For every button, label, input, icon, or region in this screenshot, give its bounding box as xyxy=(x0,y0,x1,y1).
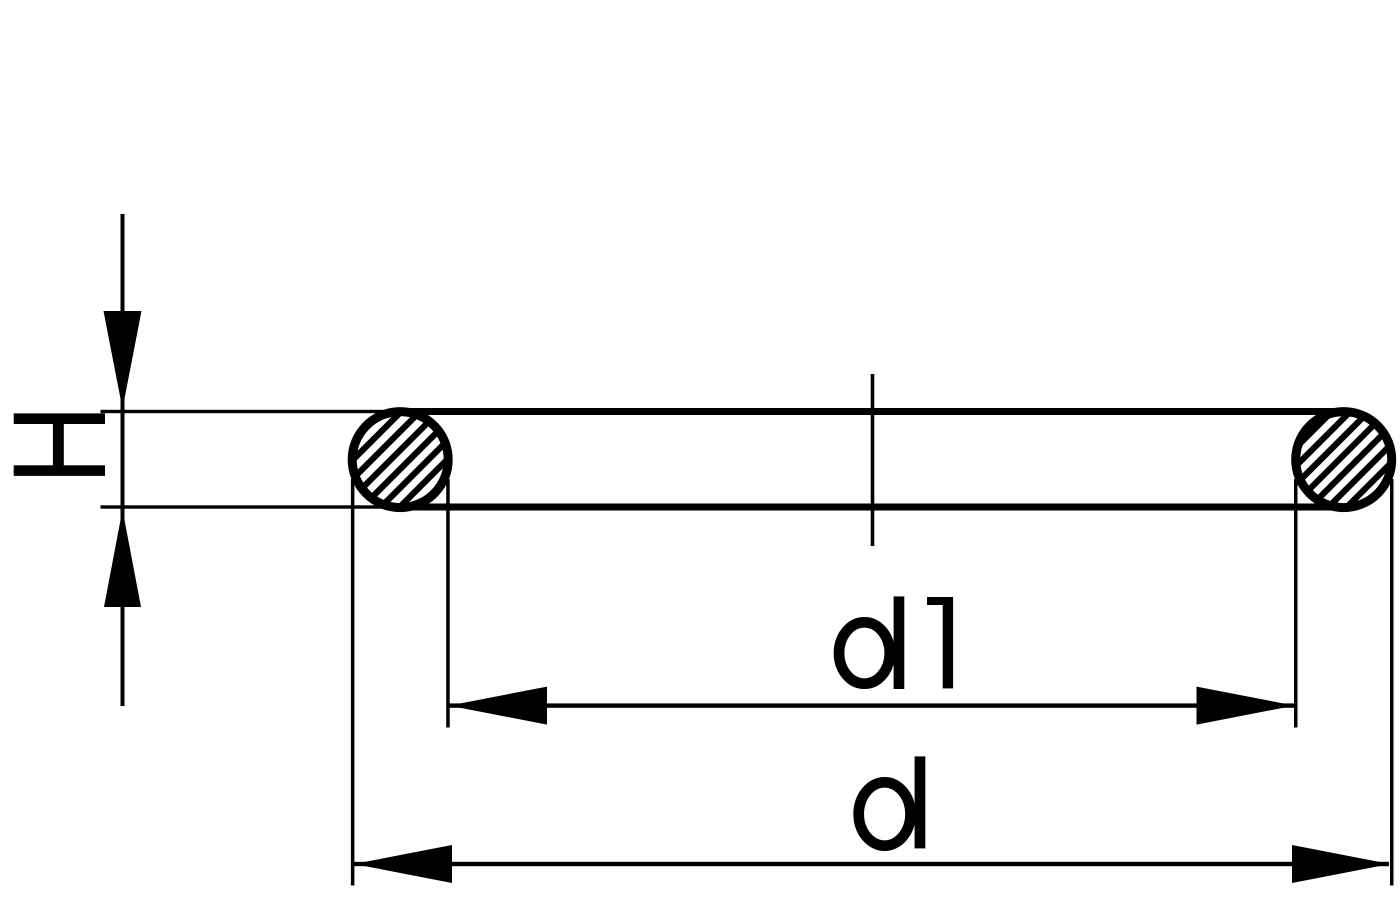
arrowhead H top (points down) xyxy=(104,311,142,409)
label d1: letter d stem xyxy=(894,596,905,689)
cross-section circle left (fill) xyxy=(348,407,453,512)
hatching right xyxy=(1209,385,1400,535)
label d1: letter d bowl xyxy=(839,622,890,683)
arrowhead d right xyxy=(1292,845,1390,883)
arrowhead d1 left xyxy=(449,687,547,725)
centerline vertical xyxy=(871,374,875,546)
label d: letter d bowl xyxy=(859,782,911,845)
label d: letter d stem xyxy=(915,756,926,848)
dimension line d1 xyxy=(449,703,1294,707)
extension line d1 left (vertical) xyxy=(446,479,450,728)
extension line bottom (thin, y=507) xyxy=(101,505,401,508)
label d1: digit 1 flag xyxy=(927,597,953,605)
arrowhead d left xyxy=(354,845,452,883)
extension line d1 right (vertical) xyxy=(1294,479,1298,728)
extension line d left (vertical) xyxy=(351,479,355,886)
arrowhead H bottom (points up) xyxy=(104,510,141,608)
hatching left xyxy=(259,385,541,535)
cross-section circle right (fill) xyxy=(1291,407,1396,512)
cross-section circle left (outline) xyxy=(352,412,448,508)
arrowhead d1 right xyxy=(1197,687,1295,725)
cross-section circle right (outline) xyxy=(1296,412,1392,508)
dimension line H (vertical) xyxy=(121,214,125,706)
label H (rotated) xyxy=(14,413,105,476)
dimension line d xyxy=(354,862,1389,866)
o-ring silhouette bottom line (thick) xyxy=(400,504,1344,511)
extension line d right (vertical) xyxy=(1390,479,1394,886)
extension line top (thin, y=411.5) xyxy=(101,410,401,413)
label d1: digit 1 stem xyxy=(943,597,953,688)
o-ring silhouette top line (thick) xyxy=(400,408,1344,415)
